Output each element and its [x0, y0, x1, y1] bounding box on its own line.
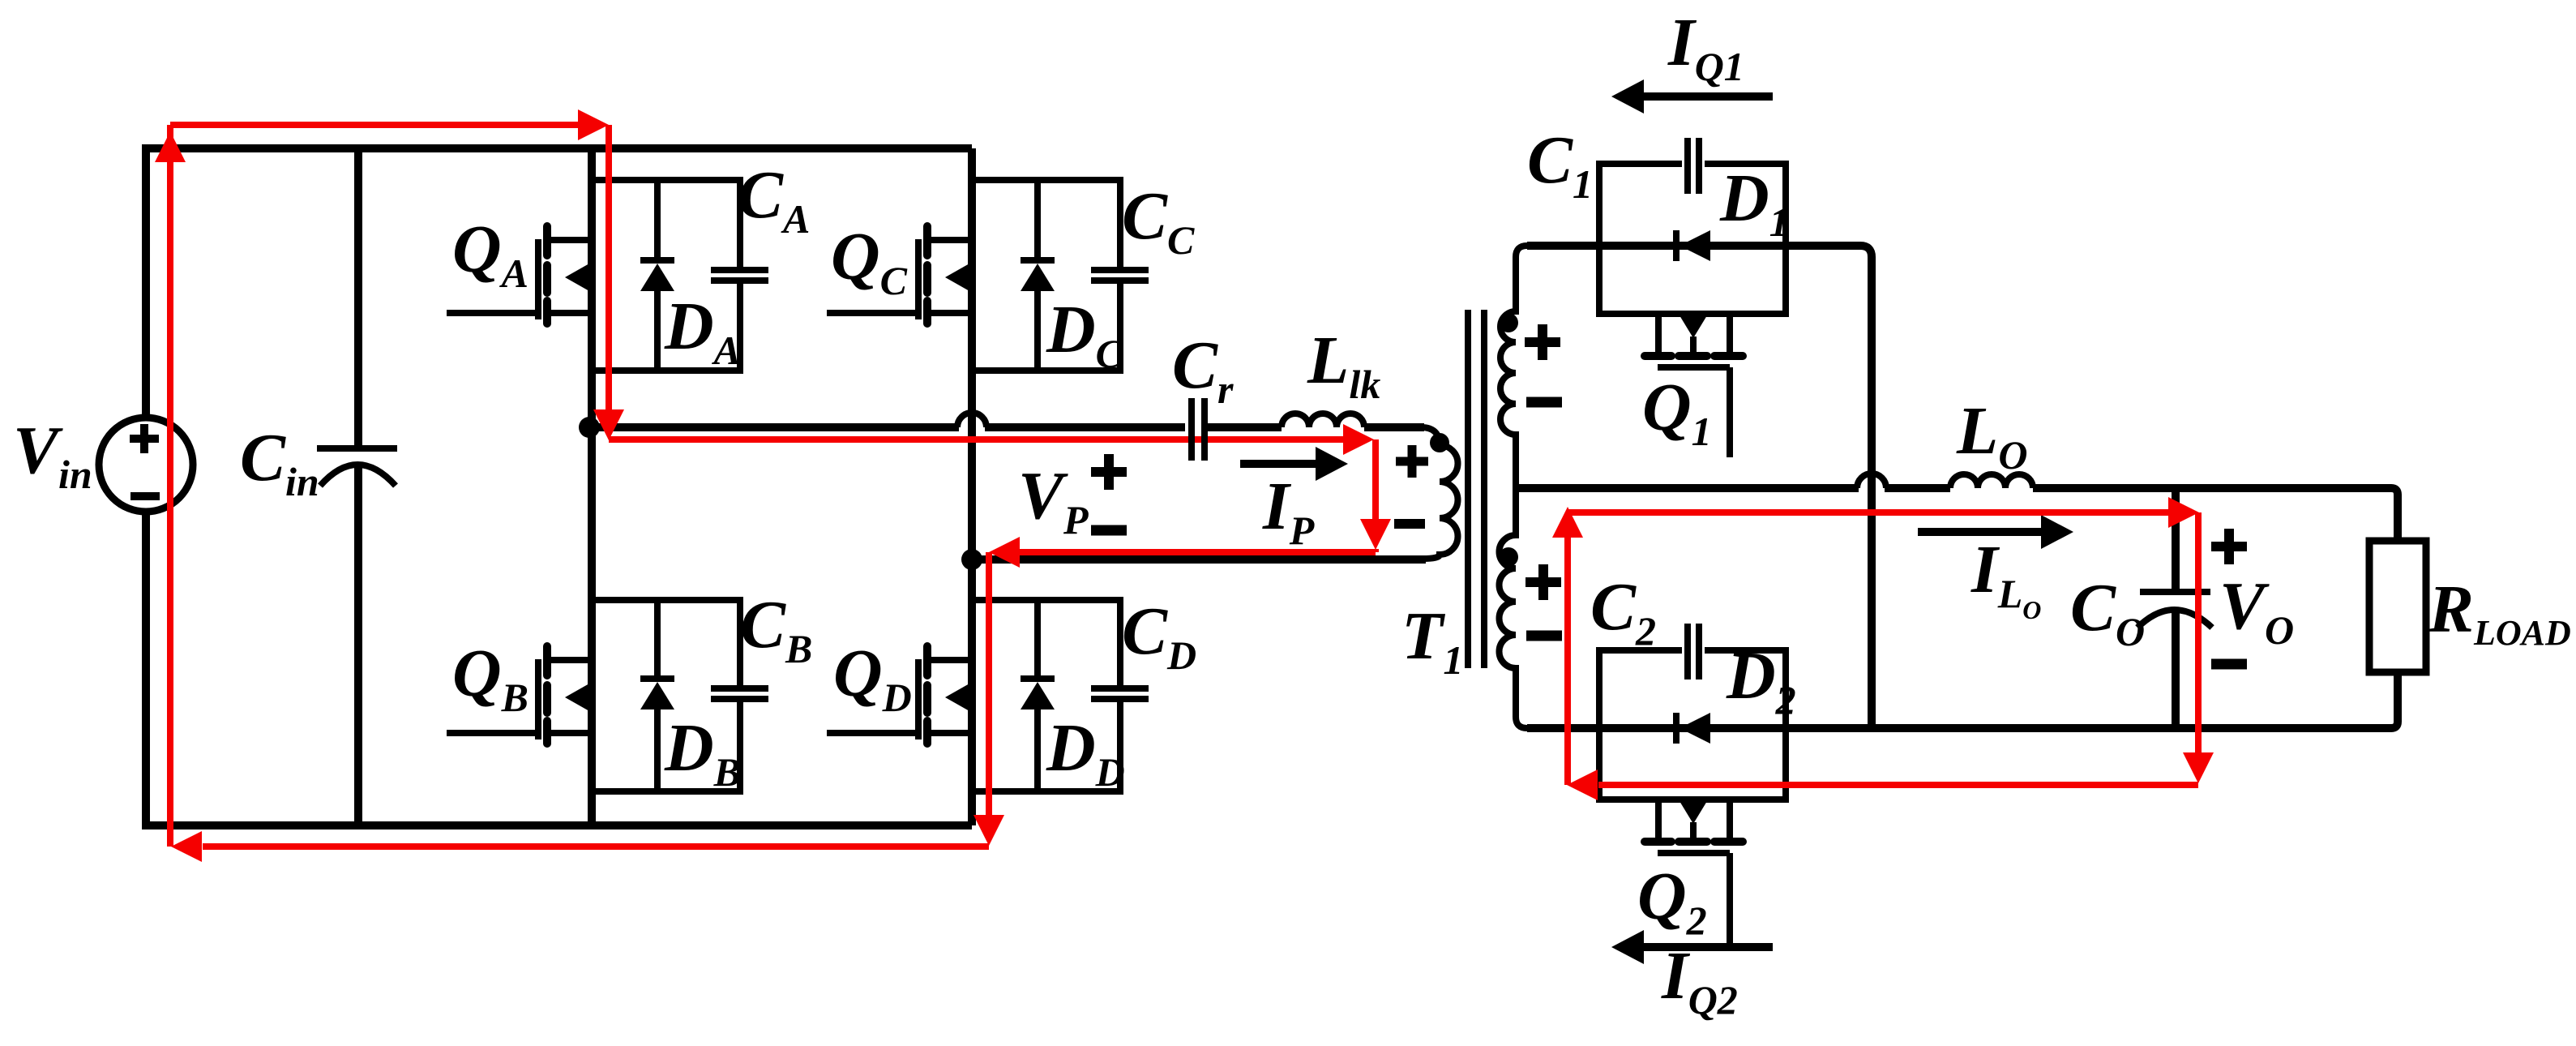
svg-text:IQ1: IQ1: [1667, 5, 1744, 89]
red arrowhead left near Vin bottom: [171, 831, 202, 862]
transistor QC: [827, 226, 972, 324]
svg-text:CB: CB: [740, 587, 812, 671]
red arrowhead down at Co bottom: [2183, 752, 2214, 783]
Vo plus: [2211, 529, 2247, 564]
svg-text:CC: CC: [1122, 178, 1195, 263]
svg-text:D1: D1: [1719, 161, 1790, 245]
red arrowhead up at center tap: [1552, 507, 1583, 538]
svg-text:DA: DA: [664, 289, 741, 373]
wire top bus: [146, 144, 972, 152]
red arrowhead down at node A: [593, 409, 624, 440]
svg-text:QD: QD: [833, 636, 912, 720]
arrow IP: [1240, 460, 1317, 468]
wire bottom bus: [142, 821, 972, 830]
red arrowhead left at Q2: [1567, 769, 1598, 800]
svg-text:IP: IP: [1262, 469, 1315, 553]
diode DB: [640, 600, 674, 791]
secondary bottom minus: [1526, 631, 1562, 641]
capacitor Cin lead top: [354, 148, 362, 445]
wire Q1 input from transformer: [1527, 246, 1872, 728]
capacitor CA plates: [711, 270, 768, 281]
wire mid bus with hop over QC leg: [592, 423, 1185, 431]
wire center tap bus with hop over Q1 drop: [1516, 484, 1950, 492]
wire Llk to primary: [1364, 423, 1424, 431]
Vin minus sign: [131, 492, 160, 500]
box of snubber C: [972, 180, 1120, 371]
wire left rail upper: [142, 144, 150, 418]
VP minus: [1091, 525, 1127, 536]
red arrowhead up near Vin: [155, 131, 186, 162]
box of clamp 1: [1599, 164, 1786, 314]
red arrowhead right at primary: [1343, 424, 1374, 455]
transformer secondary bottom winding: [1499, 489, 1527, 728]
svg-text:C1: C1: [1527, 122, 1593, 207]
capacitor Co lead bottom: [2172, 612, 2180, 728]
arrow IQ2: [1641, 943, 1773, 951]
capacitor Cin top plate: [317, 445, 397, 452]
svg-text:LO: LO: [1956, 393, 2027, 478]
svg-text:QA: QA: [452, 212, 528, 296]
box of snubber D: [972, 600, 1120, 791]
wire red secondary loop right vertical: [2195, 512, 2202, 754]
voltage source V1 Vin circle: [99, 418, 193, 512]
svg-text:QB: QB: [452, 636, 528, 720]
svg-text:Q2: Q2: [1637, 859, 1707, 943]
capacitor Co top plate: [2140, 589, 2210, 595]
box of snubber A: [592, 180, 740, 371]
arrow IQ1: [1641, 92, 1773, 101]
capacitor C2 plates: [1688, 624, 1699, 679]
svg-text:Llk: Llk: [1307, 323, 1380, 407]
red arrowhead right top bus: [578, 109, 609, 140]
transistor QA: [447, 226, 592, 324]
inductor Lo: [1950, 474, 2033, 488]
primary plus: [1396, 445, 1428, 478]
secondary top plus: [1525, 324, 1560, 360]
svg-text:VO: VO: [2219, 568, 2294, 653]
transistor Q2: [1645, 800, 1743, 943]
wire red primary return: [1020, 549, 1376, 552]
wire red secondary loop left vertical: [1564, 535, 1571, 785]
svg-text:VP: VP: [1018, 458, 1089, 542]
wire primary bottom return: [972, 555, 1426, 564]
primary dot: [1430, 433, 1449, 452]
diode DD: [1021, 600, 1055, 791]
wire output bus to load: [2033, 488, 2398, 541]
wire QA-QB leg: [588, 148, 596, 825]
svg-text:C2: C2: [1590, 569, 1656, 654]
diode DC: [1021, 180, 1055, 371]
capacitor Co lead top: [2172, 488, 2180, 589]
wire QC-QD leg: [968, 148, 976, 825]
capacitor CC plates: [1091, 270, 1149, 281]
capacitor Cin lead bottom: [354, 468, 362, 825]
secondary top dot: [1499, 313, 1518, 332]
svg-text:DC: DC: [1046, 292, 1123, 376]
inductor Llk: [1282, 414, 1364, 427]
red arrowhead down at bottom bus: [973, 815, 1004, 846]
diode D2: [1676, 713, 1710, 744]
transistor QD: [827, 646, 972, 744]
transformer T1 primary winding: [1421, 427, 1458, 559]
wire red primary loop top: [170, 122, 580, 128]
transistor Q1: [1645, 314, 1743, 457]
wire mid bus after Cr: [1208, 423, 1282, 431]
svg-text:CO: CO: [2070, 570, 2145, 654]
wire secondary bottom bus: [1527, 672, 2398, 728]
box of clamp 2: [1599, 650, 1786, 800]
capacitor Cr plates: [1192, 398, 1205, 461]
wire red primary down: [1372, 439, 1379, 519]
transformer T1 core lines: [1468, 310, 1484, 668]
Vo minus: [2211, 659, 2247, 670]
red arrowhead down at primary minus: [1360, 519, 1391, 550]
wire red mid bus: [609, 436, 1344, 443]
resistor RLOAD: [2369, 541, 2426, 672]
node A junction dot: [579, 417, 600, 438]
svg-text:DB: DB: [664, 710, 741, 795]
capacitor Cr plates overlay: [1192, 398, 1205, 461]
diode DA: [640, 180, 674, 371]
capacitor Cin curved plate: [320, 465, 396, 486]
svg-text:RLOAD: RLOAD: [2428, 572, 2571, 653]
transistor QB: [447, 646, 592, 744]
svg-text:ILO: ILO: [1971, 532, 2041, 624]
arrow ILo: [1918, 528, 2043, 536]
VP plus: [1091, 454, 1127, 490]
svg-text:DD: DD: [1046, 710, 1125, 795]
capacitor Co curved plate: [2137, 610, 2212, 628]
svg-text:Vin: Vin: [13, 413, 92, 497]
wire left rail lower: [142, 512, 150, 825]
capacitor CD plates: [1091, 688, 1149, 699]
Vin plus sign: [130, 424, 159, 453]
red arrowhead right at Co top: [2168, 497, 2199, 528]
secondary bottom dot: [1499, 547, 1518, 567]
secondary bottom plus: [1525, 564, 1561, 600]
svg-text:Cin: Cin: [240, 420, 319, 504]
secondary top minus: [1526, 397, 1562, 408]
svg-text:CD: CD: [1122, 594, 1196, 678]
node B junction dot: [961, 549, 982, 570]
wire red drop from node B: [986, 552, 992, 816]
transformer secondary top winding: [1500, 246, 1527, 489]
svg-text:T1: T1: [1401, 598, 1463, 683]
svg-text:Q1: Q1: [1642, 370, 1712, 454]
capacitor C1 plates: [1688, 138, 1699, 194]
capacitor CB plates: [711, 688, 768, 699]
svg-text:CA: CA: [738, 157, 810, 242]
wire red secondary loop top: [1568, 509, 2169, 516]
primary minus: [1394, 519, 1425, 529]
red arrowhead left at node B: [989, 537, 1020, 568]
wire red bottom return: [203, 843, 989, 850]
box of snubber B: [592, 600, 740, 791]
wire red secondary loop bottom: [1598, 782, 2198, 788]
wire red drop to node A: [605, 125, 612, 410]
svg-text:QC: QC: [831, 219, 908, 303]
diode D1: [1676, 230, 1710, 261]
wire red primary loop left vertical: [167, 125, 173, 847]
